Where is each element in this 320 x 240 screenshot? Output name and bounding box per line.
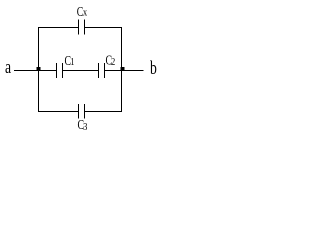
svg-text:x: x <box>83 8 88 19</box>
svg-text:b: b <box>150 57 157 79</box>
svg-text:1: 1 <box>70 57 75 68</box>
svg-text:2: 2 <box>111 57 116 68</box>
svg-text:a: a <box>5 56 12 78</box>
svg-text:3: 3 <box>83 122 88 133</box>
